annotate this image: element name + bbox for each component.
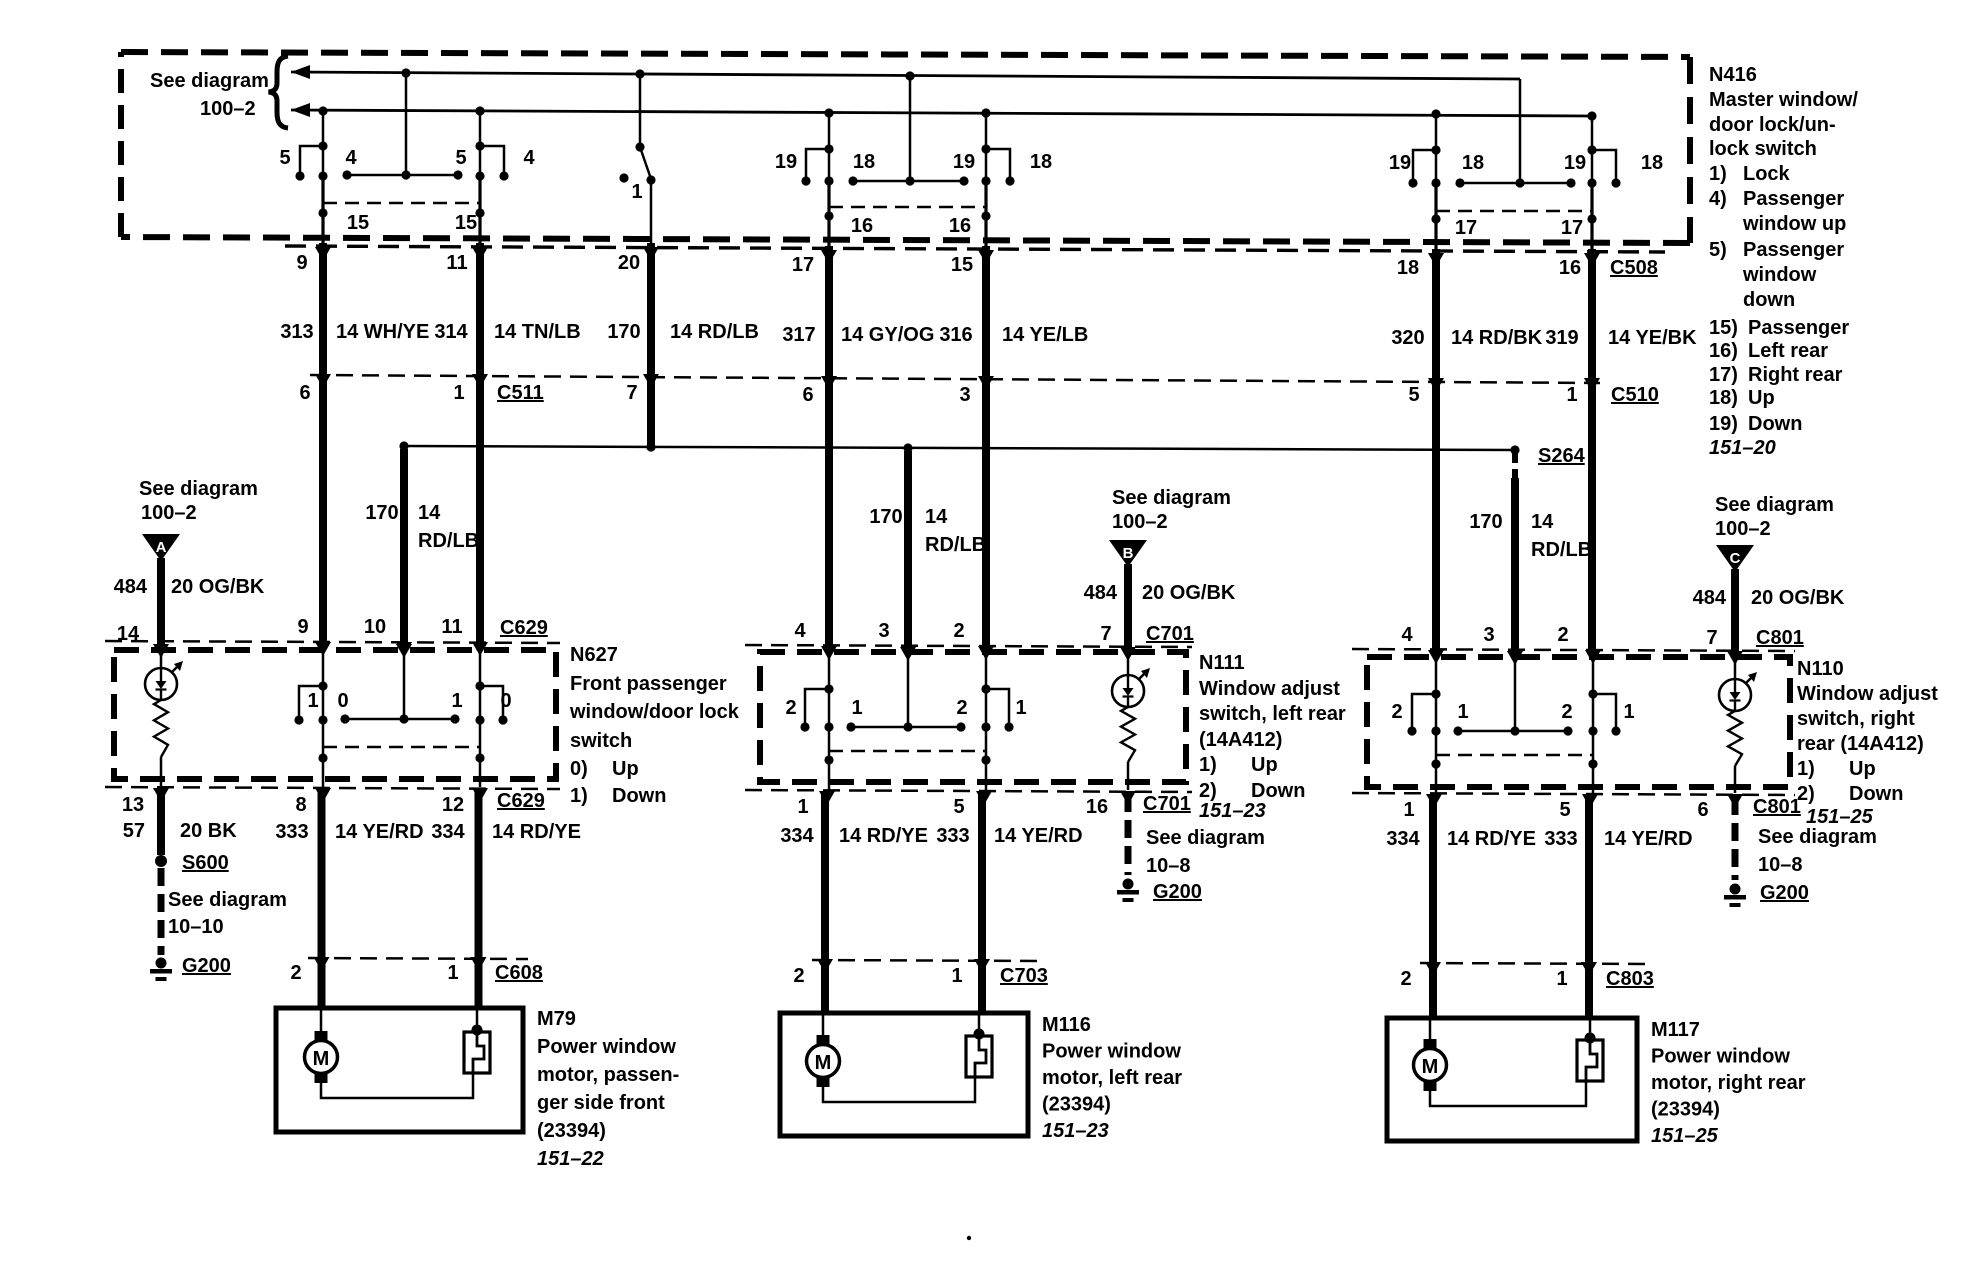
svg-text:170: 170: [1469, 511, 1502, 533]
svg-text:334: 334: [431, 821, 465, 843]
svg-text:14 YE/RD: 14 YE/RD: [994, 825, 1083, 847]
resistor N627: [154, 700, 168, 757]
svg-text:170: 170: [869, 506, 902, 528]
N627 description text: [569, 644, 740, 807]
labels 57 20 BK: [123, 820, 237, 842]
node A triangle: [142, 534, 180, 561]
svg-text:lock switch: lock switch: [1709, 138, 1817, 160]
svg-text:Up: Up: [612, 758, 639, 780]
svg-text:17: 17: [1561, 217, 1583, 239]
svg-text:100–2: 100–2: [200, 98, 256, 120]
pin 15 labels: [347, 212, 477, 234]
svg-text:9: 9: [296, 252, 307, 274]
svg-text:C508: C508: [1610, 257, 1658, 279]
svg-text:1: 1: [1556, 968, 1567, 990]
svg-text:See diagram: See diagram: [1715, 494, 1834, 516]
svg-text:down: down: [1743, 289, 1795, 311]
svg-text:319: 319: [1545, 327, 1578, 349]
switch contacts N111: [800, 689, 1013, 732]
svg-text:2: 2: [1561, 701, 1572, 723]
motor text M116: [1042, 1014, 1182, 1142]
svg-text:Passenger: Passenger: [1748, 317, 1849, 339]
svg-text:14 YE/RD: 14 YE/RD: [335, 821, 424, 843]
power window motor M79 box: [276, 1008, 523, 1132]
svg-text:M116: M116: [1042, 1014, 1091, 1036]
svg-text:C703: C703: [1000, 965, 1048, 987]
svg-text:4): 4): [1709, 188, 1727, 210]
svg-text:Right rear: Right rear: [1748, 364, 1843, 386]
svg-text:4: 4: [345, 147, 357, 169]
svg-text:G200: G200: [1153, 881, 1202, 903]
svg-text:5: 5: [455, 147, 466, 169]
svg-text:1: 1: [851, 697, 862, 719]
wire seg pin17 left: [1434, 185, 1437, 249]
wire 334 14 RD/YE (g2): [821, 794, 829, 1013]
svg-text:0: 0: [337, 690, 348, 712]
svg-text:2: 2: [956, 697, 967, 719]
wire labels row group1: [280, 321, 759, 343]
svg-text:14 RD/YE: 14 RD/YE: [1447, 828, 1536, 850]
svg-text:See diagram: See diagram: [139, 478, 258, 500]
svg-text:ger side front: ger side front: [537, 1092, 665, 1114]
svg-text:2: 2: [785, 697, 796, 719]
svg-text:16: 16: [1559, 257, 1581, 279]
svg-text:M: M: [1422, 1056, 1439, 1078]
svg-text:See diagram: See diagram: [1112, 487, 1231, 509]
svg-text:9: 9: [297, 616, 308, 638]
svg-text:3: 3: [1483, 624, 1494, 646]
svg-text:151–25: 151–25: [1651, 1125, 1719, 1147]
wire 317 14 GY/OG: [825, 246, 833, 648]
svg-text:57: 57: [123, 820, 145, 842]
connector line C608: [308, 958, 528, 959]
see diagram 100-2 label A: [139, 478, 258, 524]
svg-text:151–20: 151–20: [1709, 437, 1776, 459]
svg-text:Power window: Power window: [1042, 1041, 1181, 1063]
svg-text:13: 13: [122, 794, 144, 816]
svg-text:18: 18: [1397, 257, 1419, 279]
svg-text:window: window: [1742, 264, 1817, 286]
svg-text:See diagram: See diagram: [168, 889, 287, 911]
svg-text:C629: C629: [497, 790, 545, 812]
N416 rocker contacts left rear (pins 18/19): [801, 71, 1014, 185]
labels 484 20 OG/BK (B): [1084, 582, 1236, 604]
wire 484 20 OG/BK (A): [157, 558, 165, 645]
svg-text:5: 5: [953, 796, 964, 818]
wire pin2 inside N110: [1592, 655, 1595, 793]
svg-text:5: 5: [1408, 384, 1419, 406]
svg-text:333: 333: [936, 825, 969, 847]
svg-text:switch, left rear: switch, left rear: [1199, 703, 1346, 725]
connector line C508 row: [285, 246, 1665, 252]
svg-text:Window adjust: Window adjust: [1797, 683, 1938, 705]
window adjust switch right rear N110 dashed box: [1367, 657, 1790, 787]
link wire inside M116: [823, 1077, 975, 1102]
N416 description text block: [1709, 64, 1858, 459]
N416 rocker contacts right rear (pins 18/19): [1408, 79, 1620, 188]
svg-text:18): 18): [1709, 387, 1738, 409]
svg-text:18: 18: [1030, 151, 1052, 173]
svg-text:317: 317: [782, 324, 815, 346]
svg-text:334: 334: [780, 825, 814, 847]
svg-text:1: 1: [1015, 697, 1026, 719]
svg-text:12: 12: [442, 794, 464, 816]
svg-text:7: 7: [1100, 623, 1111, 645]
link wire inside M79: [321, 1073, 473, 1098]
wire seg pin15 left: [321, 177, 324, 243]
node C triangle: [1716, 545, 1754, 572]
svg-text:G200: G200: [182, 955, 231, 977]
motor M symbol M117: [1414, 1039, 1447, 1091]
svg-text:motor, passen-: motor, passen-: [537, 1064, 679, 1086]
connector line C803: [1420, 963, 1645, 964]
svg-text:rear (14A412): rear (14A412): [1797, 733, 1924, 755]
wire 334 14 RD/YE (g1): [475, 791, 483, 1008]
wire 314 14 TN/LB: [476, 243, 484, 645]
svg-text:14 GY/OG: 14 GY/OG: [841, 324, 934, 346]
svg-text:1): 1): [570, 785, 588, 807]
svg-text:RD/LB: RD/LB: [1531, 539, 1592, 561]
motor text M117: [1651, 1019, 1806, 1147]
motor M symbol M79: [305, 1031, 338, 1083]
wire 170 14 RD/LB drop group2: [904, 451, 912, 648]
svg-text:C803: C803: [1606, 968, 1654, 990]
svg-text:motor, left rear: motor, left rear: [1042, 1067, 1182, 1089]
svg-text:484: 484: [114, 576, 148, 598]
svg-text:14: 14: [1531, 511, 1554, 533]
labels 484 20 OG/BK (C): [1693, 587, 1845, 609]
svg-text:switch, right: switch, right: [1797, 708, 1915, 730]
wire seg pin16 right: [984, 183, 987, 246]
connector line C511/C510 row: [310, 375, 1600, 383]
inner dashed line group1: [323, 202, 480, 205]
svg-text:1): 1): [1199, 754, 1217, 776]
svg-text:N110: N110: [1797, 658, 1844, 680]
indicator lamp N111: [1112, 668, 1150, 707]
wire pin14 inside N627: [160, 645, 163, 668]
svg-text:17: 17: [792, 254, 814, 276]
svg-text:14 WH/YE: 14 WH/YE: [336, 321, 429, 343]
svg-text:333: 333: [1544, 828, 1577, 850]
svg-text:3: 3: [878, 620, 889, 642]
svg-text:N111: N111: [1199, 652, 1245, 674]
wire 334 14 RD/YE (g3): [1429, 797, 1437, 1018]
node B triangle: [1109, 540, 1147, 567]
wire into motor M79: [320, 1008, 323, 1033]
link wire inside M117: [1430, 1081, 1586, 1106]
svg-text:C701: C701: [1143, 793, 1191, 815]
svg-text:100–2: 100–2: [1112, 511, 1168, 533]
svg-text:C801: C801: [1753, 796, 1801, 818]
svg-text:Front passenger: Front passenger: [570, 673, 727, 695]
svg-text:15): 15): [1709, 317, 1738, 339]
svg-text:G200: G200: [1760, 882, 1809, 904]
svg-text:2: 2: [953, 620, 964, 642]
svg-text:314: 314: [434, 321, 468, 343]
svg-text:170: 170: [607, 321, 640, 343]
N110 description text: [1797, 658, 1938, 805]
svg-text:20 BK: 20 BK: [180, 820, 237, 842]
svg-text:1): 1): [1709, 163, 1727, 185]
svg-text:2): 2): [1199, 780, 1217, 802]
svg-text:14 RD/YE: 14 RD/YE: [839, 825, 928, 847]
svg-text:16: 16: [949, 215, 971, 237]
labels g1 motor wires: [275, 821, 581, 843]
svg-text:1: 1: [1566, 384, 1577, 406]
svg-text:Left rear: Left rear: [1748, 340, 1828, 362]
wire pin10 inside N627: [403, 647, 406, 719]
svg-text:18: 18: [1641, 152, 1663, 174]
brace: [269, 56, 289, 128]
wire pin9 inside N627: [322, 647, 325, 787]
svg-text:151–23: 151–23: [1042, 1120, 1109, 1142]
splice S600: [155, 855, 167, 867]
svg-text:Up: Up: [1251, 754, 1278, 776]
switch contacts N627: [294, 686, 507, 725]
svg-text:C511: C511: [497, 382, 544, 404]
wire 484 20 OG/BK (B): [1124, 564, 1132, 648]
window adjust switch left rear N111 dashed box: [760, 652, 1186, 782]
wire into motor M117: [1429, 1018, 1432, 1041]
svg-text:1: 1: [631, 181, 642, 203]
svg-text:M117: M117: [1651, 1019, 1700, 1041]
svg-text:0): 0): [570, 758, 588, 780]
svg-text:16): 16): [1709, 340, 1738, 362]
svg-text:2: 2: [1400, 968, 1411, 990]
svg-text:17): 17): [1709, 364, 1738, 386]
svg-text:Down: Down: [1748, 413, 1802, 435]
svg-text:1: 1: [447, 962, 458, 984]
wire 484 20 OG/BK (C): [1731, 569, 1739, 652]
svg-text:0: 0: [500, 690, 511, 712]
svg-text:N627: N627: [570, 644, 618, 666]
svg-text:19: 19: [1389, 152, 1411, 174]
wire 313 14 WH/YE: [319, 243, 327, 645]
svg-text:4: 4: [1401, 624, 1413, 646]
connector line C801 (bottom): [1352, 793, 1795, 795]
svg-text:10–8: 10–8: [1146, 855, 1191, 877]
svg-text:2: 2: [793, 965, 804, 987]
wire 316 14 YE/LB: [982, 246, 990, 648]
svg-text:334: 334: [1386, 828, 1420, 850]
front passenger window/door lock switch N627 dashed box: [114, 650, 556, 779]
chevrons C629: [315, 642, 488, 656]
svg-text:313: 313: [280, 321, 313, 343]
labels g3 motor wires: [1386, 828, 1692, 850]
svg-text:(14A412): (14A412): [1199, 729, 1282, 751]
svg-text:4: 4: [523, 147, 535, 169]
svg-text:18: 18: [853, 151, 875, 173]
svg-text:N416: N416: [1709, 64, 1757, 86]
svg-text:2: 2: [1557, 624, 1568, 646]
bus wire 1 (feed from diagram 100-2, upper): [291, 65, 1520, 79]
svg-text:2: 2: [290, 962, 301, 984]
svg-text:7: 7: [626, 382, 637, 404]
svg-text:1: 1: [453, 382, 464, 404]
inner dashed line group2: [829, 206, 986, 209]
chevrons C701 bottom: [819, 791, 1136, 805]
N111 description text: [1199, 652, 1346, 802]
svg-text:14: 14: [925, 506, 948, 528]
svg-text:14 RD/LB: 14 RD/LB: [670, 321, 759, 343]
wire 333 14 YE/RD (g1): [318, 791, 326, 1008]
svg-text:Power window: Power window: [537, 1036, 676, 1058]
svg-text:5: 5: [1559, 799, 1570, 821]
svg-text:Up: Up: [1849, 758, 1876, 780]
svg-text:door lock/un-: door lock/un-: [1709, 114, 1836, 136]
svg-text:20 OG/BK: 20 OG/BK: [171, 576, 265, 598]
svg-text:16: 16: [1086, 796, 1108, 818]
connector line C701 (top): [745, 645, 1192, 647]
wire pin4 inside N111: [828, 651, 831, 790]
svg-text:4: 4: [794, 620, 806, 642]
svg-text:(23394): (23394): [1042, 1094, 1111, 1116]
connector line C629 (bottom): [105, 787, 560, 789]
svg-text:RD/LB: RD/LB: [418, 530, 479, 552]
svg-text:100–2: 100–2: [1715, 518, 1771, 540]
pin 16 labels: [851, 215, 971, 237]
svg-text:6: 6: [802, 384, 813, 406]
svg-text:19: 19: [775, 151, 797, 173]
wire 57 20 BK: [157, 791, 165, 855]
svg-text:2: 2: [1391, 701, 1402, 723]
svg-text:14 YE/RD: 14 YE/RD: [1604, 828, 1693, 850]
svg-text:See diagram: See diagram: [1758, 826, 1877, 848]
wire into motor M116: [822, 1013, 825, 1037]
svg-text:M: M: [815, 1052, 832, 1074]
wire pin3 inside N110: [1514, 655, 1517, 731]
chevrons C801: [1428, 650, 1601, 664]
svg-text:151–25: 151–25: [1806, 806, 1874, 828]
wire pin11 inside N627: [479, 647, 482, 787]
svg-text:484: 484: [1693, 587, 1727, 609]
motor text M79: [537, 1008, 679, 1170]
svg-text:1: 1: [1623, 701, 1634, 723]
svg-text:19: 19: [1564, 152, 1586, 174]
svg-text:10–10: 10–10: [168, 916, 224, 938]
ground wire to G200 (left): [158, 868, 165, 955]
svg-text:Down: Down: [1849, 783, 1903, 805]
svg-text:15: 15: [951, 254, 973, 276]
svg-text:Master window/: Master window/: [1709, 89, 1858, 111]
svg-text:16: 16: [851, 215, 873, 237]
ground symbol G200 (middle): [1117, 879, 1139, 903]
svg-text:RD/LB: RD/LB: [925, 534, 986, 556]
svg-text:17: 17: [1455, 217, 1477, 239]
svg-text:151–23: 151–23: [1199, 800, 1266, 822]
inner dashed line group3: [1436, 210, 1592, 213]
master window/door lock switch N416 dashed box: [121, 52, 1690, 243]
labels 170 14 RD/LB group3: [1469, 511, 1592, 561]
svg-text:Passenger: Passenger: [1743, 188, 1844, 210]
power window motor M117 box: [1387, 1018, 1637, 1141]
wire pin7 inside N110: [1734, 653, 1737, 679]
svg-text:C: C: [1730, 550, 1741, 567]
svg-text:Down: Down: [1251, 780, 1305, 802]
svg-text:C629: C629: [500, 617, 548, 639]
svg-text:S264: S264: [1538, 445, 1586, 467]
svg-text:10: 10: [364, 616, 386, 638]
svg-text:Down: Down: [612, 785, 666, 807]
svg-text:switch: switch: [570, 730, 632, 752]
svg-text:1: 1: [1457, 701, 1468, 723]
speck: [967, 1236, 971, 1240]
wire seg pin17 right: [1590, 185, 1593, 249]
svg-text:5): 5): [1709, 239, 1727, 261]
chevrons C629 bottom: [153, 788, 488, 802]
inner dashed line N111: [829, 750, 986, 753]
connector line C801 (top): [1352, 649, 1795, 651]
labels 484 20 OG/BK (A): [114, 576, 265, 598]
see diagram 100-2 label C: [1715, 494, 1834, 540]
labels 170 14 RD/LB group2: [869, 506, 986, 556]
svg-text:14 YE/BK: 14 YE/BK: [1608, 327, 1697, 349]
wire pin7 inside N111: [1127, 649, 1130, 675]
switch contacts N110: [1407, 694, 1620, 736]
splice S264 wire (horizontal): [399, 441, 1519, 454]
svg-text:1: 1: [451, 690, 462, 712]
see diagram 100-2 label B: [1112, 487, 1231, 533]
wire seg pin15 right: [478, 177, 481, 243]
svg-text:18: 18: [1462, 152, 1484, 174]
chevrons C801 bottom: [1426, 794, 1743, 808]
svg-text:6: 6: [1697, 799, 1708, 821]
indicator lamp N627: [145, 661, 183, 700]
pin 17 labels: [1455, 217, 1583, 239]
svg-text:6: 6: [299, 382, 310, 404]
svg-text:20 OG/BK: 20 OG/BK: [1142, 582, 1236, 604]
svg-text:1: 1: [951, 965, 962, 987]
svg-text:19: 19: [953, 151, 975, 173]
wire labels row group2: [782, 324, 1088, 346]
svg-text:See diagram: See diagram: [150, 70, 269, 92]
wire pin3 inside N111: [907, 651, 910, 727]
wire 170 14 RD/LB drop group3: [1507, 453, 1523, 665]
connector line C701 (bottom): [745, 790, 1192, 792]
svg-text:S600: S600: [182, 852, 229, 874]
svg-text:Lock: Lock: [1743, 163, 1791, 185]
indicator lamp N110: [1719, 672, 1757, 711]
see diagram 10-8 note (middle): [1146, 827, 1265, 877]
ground wire to G200 (middle): [1125, 794, 1132, 875]
wire labels row group3: [1391, 327, 1697, 349]
svg-text:15: 15: [455, 212, 477, 234]
inner dashed line N627: [323, 746, 480, 749]
svg-text:14 RD/BK: 14 RD/BK: [1451, 327, 1543, 349]
ground symbol G200 (right): [1724, 884, 1746, 908]
svg-text:14 YE/LB: 14 YE/LB: [1002, 324, 1088, 346]
svg-text:8: 8: [295, 794, 306, 816]
svg-text:1: 1: [307, 690, 318, 712]
svg-text:484: 484: [1084, 582, 1118, 604]
wire 320 14 RD/BK: [1432, 249, 1440, 652]
svg-text:B: B: [1123, 545, 1134, 562]
circuit breaker M117: [1577, 1018, 1603, 1081]
svg-text:320: 320: [1391, 327, 1424, 349]
svg-text:1): 1): [1797, 758, 1815, 780]
svg-text:14 TN/LB: 14 TN/LB: [494, 321, 581, 343]
labels g2 motor wires: [780, 825, 1082, 847]
lock switch contact pin 1: [619, 69, 655, 243]
svg-text:19): 19): [1709, 413, 1738, 435]
svg-text:window/door lock: window/door lock: [569, 701, 740, 723]
svg-text:10–8: 10–8: [1758, 854, 1803, 876]
wire 333 14 YE/RD (g2): [978, 794, 986, 1013]
svg-text:C801: C801: [1756, 627, 1804, 649]
circuit breaker M79: [464, 1008, 490, 1073]
svg-text:motor, right rear: motor, right rear: [1651, 1072, 1806, 1094]
svg-text:(23394): (23394): [1651, 1099, 1720, 1121]
